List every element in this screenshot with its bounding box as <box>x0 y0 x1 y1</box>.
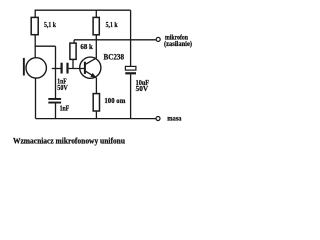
wire emitter vertical <box>95 78 97 94</box>
capacitor C1 coupling lead left <box>52 68 61 70</box>
svg-text:BC238: BC238 <box>104 52 125 61</box>
transistor emitter arrow <box>90 73 96 78</box>
capacitor C1 plate left <box>61 63 63 74</box>
wire 68k bottom lead to base wire <box>72 59 74 68</box>
wire R2 bottom lead to collector node <box>95 35 97 40</box>
wire 1nF branch bottom <box>55 104 57 119</box>
wire right rail upper <box>130 10 132 66</box>
wire base lead <box>69 68 85 70</box>
svg-text:5,1 k: 5,1 k <box>106 20 119 29</box>
wire R1 branch vertical down <box>55 46 57 68</box>
svg-text:masa: masa <box>167 113 181 122</box>
wire 68k top lead <box>73 40 75 43</box>
capacitor C3 10uF positive plate box <box>125 66 135 70</box>
capacitor C1 plate right <box>66 63 68 74</box>
resistor R4 100om <box>93 94 99 111</box>
terminal mikrofon (zasilanie) <box>156 37 160 41</box>
wire R1 branch horizontal <box>35 45 56 47</box>
transistor collector diagonal <box>86 58 97 64</box>
svg-text:68 k: 68 k <box>80 42 93 51</box>
svg-text:1nF: 1nF <box>60 104 70 112</box>
resistor R3 68k <box>70 43 76 59</box>
svg-text:(zasilanie): (zasilanie) <box>164 40 193 48</box>
wire collector output line <box>74 39 156 41</box>
microphone M1 <box>26 58 46 78</box>
svg-text:100 om: 100 om <box>104 96 126 105</box>
wire microphone bottom lead <box>35 78 37 119</box>
wire collector vertical <box>95 40 97 58</box>
wire R1 top lead <box>34 10 36 17</box>
svg-text:Wzmacniacz mikrofonowy unifonu: Wzmacniacz mikrofonowy unifonu <box>13 136 126 145</box>
svg-text:5,1 k: 5,1 k <box>44 20 57 29</box>
svg-text:50V: 50V <box>136 84 149 93</box>
transistor emitter diagonal <box>86 71 97 78</box>
svg-text:50V: 50V <box>57 84 68 92</box>
wire R2 top lead <box>95 10 97 17</box>
microphone membrane bar <box>23 58 25 76</box>
transistor base bar <box>84 62 86 74</box>
resistor R2 5,1k <box>93 17 99 34</box>
wire R1 bottom to microphone top <box>34 35 36 58</box>
capacitor C2 plate bottom <box>48 102 61 104</box>
wire right rail lower <box>130 74 132 118</box>
resistor R1 5,1k <box>31 17 38 34</box>
terminal masa <box>156 117 160 121</box>
transistor Q1 BC238 circle <box>80 57 101 78</box>
wire 1nF branch vertical <box>55 69 57 99</box>
wire 100om bottom lead <box>95 111 97 119</box>
capacitor C3 negative plate <box>125 72 136 74</box>
wire top rail <box>35 9 131 11</box>
capacitor C2 plate top <box>48 98 61 100</box>
wire bottom ground rail <box>36 118 157 120</box>
